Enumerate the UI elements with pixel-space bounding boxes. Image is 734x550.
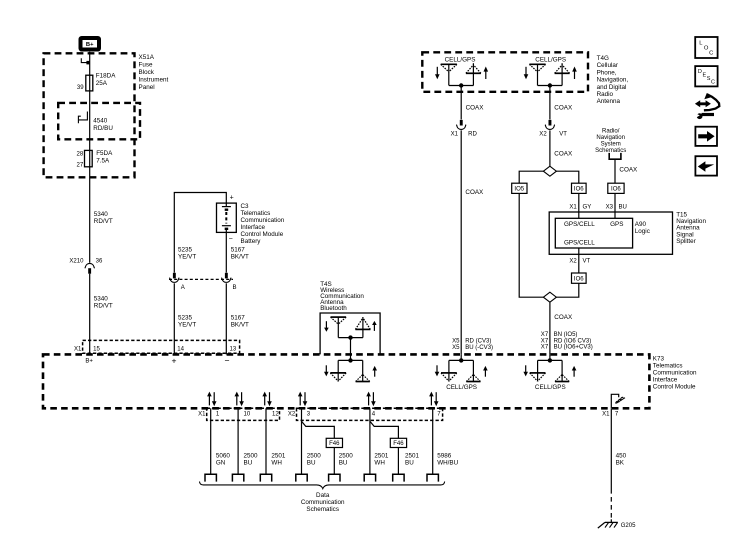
connector F46 second <box>390 438 406 447</box>
svg-text:F46: F46 <box>393 441 404 447</box>
svg-text:C: C <box>709 50 713 56</box>
pin 28 <box>76 151 83 157</box>
svg-text:X210: X210 <box>69 258 84 264</box>
svg-text:BK/VT: BK/VT <box>231 253 249 260</box>
wire label 5235 YE/VT upper <box>178 246 196 260</box>
svg-text:X1: X1 <box>569 204 577 210</box>
svg-text:RD (IO6 CV3): RD (IO6 CV3) <box>554 338 592 344</box>
antenna module T4G dashed box <box>422 52 588 92</box>
svg-text:B+: B+ <box>85 359 93 365</box>
pin X2:4 wire 2501 WH <box>370 408 389 474</box>
fuse block inner dashed box <box>58 103 140 139</box>
T4G left arrows <box>435 67 488 80</box>
pin X2:7 arrows <box>429 392 438 407</box>
K73 internal ground link <box>611 394 625 408</box>
svg-text:Telematics: Telematics <box>241 210 271 217</box>
wire label 5340 RD/VT lower <box>94 295 113 309</box>
svg-text:RD: RD <box>468 132 477 138</box>
wire radio coax <box>615 159 638 183</box>
svg-text:5235: 5235 <box>178 314 193 321</box>
svg-text:2501: 2501 <box>271 453 286 460</box>
label A90 Logic <box>635 221 650 235</box>
wire label 4540 RD/BU <box>93 117 113 132</box>
svg-text:BU: BU <box>619 204 627 210</box>
svg-text:CELL/GPS: CELL/GPS <box>445 56 476 63</box>
svg-text:Cellular: Cellular <box>597 62 618 69</box>
svg-text:Block: Block <box>139 69 155 76</box>
svg-text:B: B <box>233 285 237 291</box>
svg-text:X7: X7 <box>541 338 549 344</box>
wire F46 second 2501 BU <box>398 448 419 475</box>
wire radio IO6 to T15 X3 <box>606 193 627 218</box>
label Data Communication Schematics <box>301 492 345 513</box>
svg-text:Interface: Interface <box>653 376 678 383</box>
wire B+ to K73 X1:15 <box>89 52 91 355</box>
svg-text:IO6: IO6 <box>574 276 584 282</box>
svg-text:IO5: IO5 <box>514 187 524 193</box>
K73 cell transmit antenna X7 <box>555 360 569 381</box>
pin X2:4 arrows <box>366 392 375 407</box>
wire T15 X2 output <box>569 248 590 273</box>
port IO6 output <box>572 273 587 283</box>
wire IO5 to lower diamond <box>519 193 543 297</box>
svg-text:5235: 5235 <box>178 246 193 253</box>
T4G left receive antenna <box>441 64 457 85</box>
svg-text:5340: 5340 <box>94 211 109 218</box>
coax connector X2 VT <box>539 120 567 138</box>
svg-text:4540: 4540 <box>93 117 108 124</box>
T4G right receive antenna <box>529 64 545 85</box>
coax connector X1 RD <box>451 120 478 138</box>
label Radio/Navigation System Schematics <box>595 128 626 154</box>
svg-text:39: 39 <box>77 85 84 91</box>
wire label 5340 RD/VT upper <box>94 211 113 225</box>
svg-text:System: System <box>601 142 621 148</box>
svg-text:Battery: Battery <box>241 238 262 245</box>
label CELL/GPS X7 <box>535 384 566 391</box>
svg-text:Navigation,: Navigation, <box>597 77 629 84</box>
pin X1:1 arrows <box>207 392 216 407</box>
fuse block X51A dashed outline <box>44 53 135 177</box>
svg-text:X51A: X51A <box>139 54 155 61</box>
svg-text:IO6: IO6 <box>574 187 584 193</box>
off-page terminal pin1 <box>205 474 216 481</box>
svg-text:Antenna: Antenna <box>597 98 621 105</box>
label C3 <box>241 203 285 245</box>
coax wire left lower to K73 X5 <box>461 130 484 354</box>
wire B to K73 pin 13 <box>225 283 227 354</box>
svg-text:Instrument: Instrument <box>139 77 169 84</box>
off-page terminal F46 first <box>329 474 340 481</box>
off-page terminal pin10 <box>232 474 243 481</box>
svg-text:CELL/GPS: CELL/GPS <box>535 56 566 63</box>
pin X1 7 ground <box>602 411 619 417</box>
svg-text:GPS: GPS <box>610 221 623 228</box>
svg-text:Data: Data <box>316 492 330 499</box>
port IO6 radio <box>608 183 624 193</box>
label CELL/GPS X5 <box>446 384 477 391</box>
svg-text:CELL/GPS: CELL/GPS <box>535 384 566 391</box>
svg-text:Logic: Logic <box>635 228 650 235</box>
label T4S Wireless Communication Antenna Bluetooth <box>320 281 364 312</box>
control module K73 dashed outline <box>43 354 649 408</box>
svg-text:RD/VT: RD/VT <box>94 218 113 225</box>
svg-text:Communication: Communication <box>241 217 285 224</box>
svg-text:BU: BU <box>244 460 253 467</box>
svg-text:X5: X5 <box>452 345 460 351</box>
svg-text:COAX: COAX <box>554 151 573 158</box>
pin X1:1 wire 5060 GN <box>211 408 231 474</box>
svg-text:5167: 5167 <box>231 314 246 321</box>
pin X1:12 wire 2501 WH <box>266 408 286 474</box>
svg-text:Splitter: Splitter <box>676 238 696 245</box>
svg-text:Communication: Communication <box>653 369 697 376</box>
off-page terminal pin4 <box>364 474 375 481</box>
label T4G Cellular Phone Navigation and Digital Radio Antenna <box>597 55 629 105</box>
toolbar button DESC <box>695 66 717 86</box>
svg-text:12: 12 <box>272 411 279 417</box>
svg-text:G205: G205 <box>621 523 636 529</box>
svg-text:YE/VT: YE/VT <box>178 321 196 328</box>
svg-text:X1: X1 <box>198 411 206 417</box>
inline connector row A B <box>169 278 233 280</box>
off-page terminal F46 second <box>393 474 404 481</box>
svg-text:10: 10 <box>244 411 251 417</box>
T4G right transmit antenna <box>555 63 570 85</box>
T4S signal arrows <box>324 321 377 332</box>
svg-text:−: − <box>229 236 233 243</box>
logic block A90 <box>555 218 632 248</box>
svg-text:Control Module: Control Module <box>241 231 284 238</box>
fuse block internal tap junction <box>81 58 90 64</box>
splice diamond lower <box>543 292 556 302</box>
T4G right junction <box>538 83 563 87</box>
svg-text:2500: 2500 <box>244 453 259 460</box>
connector X1 top row dotted box <box>74 340 240 353</box>
pin X1:10 wire 2500 BU <box>238 408 258 474</box>
svg-text:Schematics: Schematics <box>306 506 339 513</box>
connector X2 bottom dotted box <box>288 408 443 420</box>
svg-text:YE/VT: YE/VT <box>178 253 196 260</box>
svg-text:COAX: COAX <box>554 314 573 321</box>
internal jumper tap 4540 <box>78 112 87 124</box>
fuse F5DA 7.5A <box>85 150 114 167</box>
pin 39 <box>77 85 84 91</box>
svg-text:COAX: COAX <box>465 189 484 196</box>
svg-text:T4G: T4G <box>597 55 609 62</box>
svg-text:X3: X3 <box>606 204 614 210</box>
pin X2:3 arrows <box>298 392 307 407</box>
label CELL/GPS left <box>445 56 476 63</box>
svg-text:WH/BU: WH/BU <box>437 460 458 467</box>
svg-text:Panel: Panel <box>139 84 155 91</box>
off-page terminal pin7 <box>427 474 438 481</box>
svg-text:GPS/CELL: GPS/CELL <box>564 221 595 228</box>
wire F46 first 2500 BU <box>334 448 353 475</box>
T4S antenna junction <box>338 335 363 339</box>
wire label 5235 YE/VT lower <box>178 314 196 328</box>
wire IO6 output to lower diamond <box>556 283 578 297</box>
antenna module T4S box <box>320 313 380 354</box>
label CELL/GPS right <box>535 56 566 63</box>
label X51A Fuse Block Instrument Panel <box>139 54 169 91</box>
svg-text:BU (-CV3): BU (-CV3) <box>465 345 493 351</box>
svg-text:2500: 2500 <box>307 453 322 460</box>
fuse F18DA 25A <box>86 73 116 91</box>
splitter T15 outer box <box>549 212 672 254</box>
svg-text:5986: 5986 <box>437 453 452 460</box>
svg-text:RD/VT: RD/VT <box>94 302 113 309</box>
wire diamond to IO5 <box>519 171 543 183</box>
off-page terminal radio coax <box>609 153 621 159</box>
brace data communication group <box>200 482 445 489</box>
K73 cell antenna X7 junction <box>538 354 563 362</box>
connector pin B <box>221 273 236 291</box>
coax wire X2 to splitter diamond <box>550 130 573 166</box>
svg-text:+: + <box>230 195 234 202</box>
connector F46 first <box>326 438 342 447</box>
svg-text:GY: GY <box>583 204 592 210</box>
pin X2:3 wire 2500 BU <box>302 408 322 474</box>
svg-text:BN (IO5): BN (IO5) <box>554 332 578 338</box>
svg-text:RD/BU: RD/BU <box>93 125 113 132</box>
pin 14 <box>171 347 184 366</box>
svg-text:BK/VT: BK/VT <box>231 321 249 328</box>
pin X2:7 wire 5986 WH/BU <box>433 408 459 474</box>
K73 bluetooth transmit antenna <box>356 360 370 381</box>
pin labels X5 <box>452 338 493 351</box>
wire T4S to K73 <box>350 338 352 361</box>
pin 15 <box>85 347 100 365</box>
svg-text:Control Module: Control Module <box>653 383 696 390</box>
svg-text:COAX: COAX <box>554 104 573 111</box>
off-page terminal pin12 <box>260 474 271 481</box>
pin X1:12 arrows <box>262 392 271 407</box>
svg-text:25A: 25A <box>96 80 108 87</box>
connector pin A <box>169 273 185 291</box>
svg-text:COAX: COAX <box>466 104 485 111</box>
port IO6 input <box>572 183 587 193</box>
svg-text:7.5A: 7.5A <box>96 158 110 165</box>
coax wire right upper <box>550 86 573 120</box>
K73 cell antenna X5 junction <box>449 354 474 362</box>
T4G left junction <box>449 83 474 87</box>
K73 bluetooth receive antenna <box>330 360 346 381</box>
svg-text:450: 450 <box>616 453 627 460</box>
wire battery positive loop <box>174 193 226 273</box>
wire label 5167 BK/VT upper <box>231 246 249 260</box>
battery C3 Telematics Communication Interface Control Module Battery <box>217 203 237 232</box>
label T15 Navigation Antenna Signal Splitter <box>676 212 706 245</box>
splice diamond upper <box>543 166 556 176</box>
svg-text:5060: 5060 <box>216 453 231 460</box>
T4S transmit antenna <box>355 317 370 338</box>
svg-text:A90: A90 <box>635 221 647 228</box>
svg-text:Navigation: Navigation <box>596 135 625 141</box>
svg-text:2500: 2500 <box>339 453 354 460</box>
svg-text:Communication: Communication <box>301 499 345 506</box>
battery positive terminal B+ <box>81 38 100 50</box>
coax wire left upper <box>461 86 484 120</box>
off-page terminal pin3 <box>296 474 307 481</box>
svg-text:Telematics: Telematics <box>653 362 683 369</box>
T4G left transmit antenna <box>466 63 481 85</box>
K73 bluetooth signal arrows <box>324 365 377 376</box>
wire label 5167 BK/VT lower <box>231 314 249 328</box>
K73 cell receive antenna X5 <box>441 360 457 381</box>
pin labels X7 <box>541 332 593 351</box>
svg-text:14: 14 <box>177 347 184 353</box>
svg-text:Phone,: Phone, <box>597 69 617 76</box>
svg-text:CELL/GPS: CELL/GPS <box>446 384 477 391</box>
splice branch to F46 first <box>302 421 335 438</box>
svg-text:D: D <box>698 69 702 75</box>
svg-text:X1: X1 <box>74 347 82 353</box>
svg-text:27: 27 <box>76 163 83 169</box>
pin 27 <box>76 163 83 169</box>
ground wire 450 BK <box>611 408 626 522</box>
svg-text:Bluetooth: Bluetooth <box>320 305 347 312</box>
svg-text:C: C <box>711 80 715 86</box>
wire A to K73 pin 14 <box>173 283 175 354</box>
svg-text:36: 36 <box>96 258 103 264</box>
svg-text:2501: 2501 <box>374 453 389 460</box>
T4S receive antenna <box>331 317 347 338</box>
svg-text:5340: 5340 <box>94 295 109 302</box>
K73 bluetooth antenna junction <box>338 358 363 362</box>
svg-text:13: 13 <box>230 347 237 353</box>
wire battery negative <box>225 232 227 272</box>
T4G right arrows <box>524 67 577 80</box>
svg-text:WH: WH <box>374 460 385 467</box>
svg-text:WH: WH <box>271 460 282 467</box>
svg-text:GN: GN <box>216 460 226 467</box>
port IO5 <box>512 183 527 193</box>
pin X1:10 arrows <box>235 392 244 407</box>
K73 X7 arrows <box>523 365 576 376</box>
svg-text:Fuse: Fuse <box>139 62 153 69</box>
node + at battery top <box>230 195 234 202</box>
connector X1 bottom dotted box <box>198 408 279 420</box>
wire diamond to IO6 left <box>556 171 578 183</box>
svg-text:Interface: Interface <box>241 224 266 231</box>
svg-text:Radio: Radio <box>597 91 614 98</box>
svg-text:X7: X7 <box>541 345 549 351</box>
splice branch to F46 second <box>370 421 399 438</box>
inline connector X210 pin 36 <box>69 258 103 273</box>
svg-text:C3: C3 <box>241 203 250 210</box>
svg-text:X1: X1 <box>451 132 459 138</box>
svg-text:2501: 2501 <box>405 453 420 460</box>
svg-text:X5: X5 <box>452 338 460 344</box>
svg-text:X2: X2 <box>569 259 577 265</box>
svg-text:BU (IO6+CV3): BU (IO6+CV3) <box>554 345 593 351</box>
svg-text:BU: BU <box>339 460 348 467</box>
K73 X5 arrows <box>435 365 488 376</box>
svg-text:28: 28 <box>76 151 83 157</box>
svg-text:B+: B+ <box>86 42 94 48</box>
toolbar button back arrow <box>695 156 717 175</box>
svg-text:Radio/: Radio/ <box>602 128 620 134</box>
svg-text:RD (CV3): RD (CV3) <box>465 338 491 344</box>
svg-text:+: + <box>171 355 176 365</box>
coax wire to K73 X7 <box>550 302 573 354</box>
svg-text:COAX: COAX <box>619 166 638 173</box>
toolbar button LOC <box>695 37 717 58</box>
svg-text:5167: 5167 <box>231 246 246 253</box>
node - at battery bottom <box>229 236 233 243</box>
svg-text:GPS/CELL: GPS/CELL <box>564 240 595 247</box>
svg-text:and Digital: and Digital <box>597 84 627 91</box>
wire IO6 to T15 X1 <box>569 193 591 218</box>
svg-text:BU: BU <box>405 460 414 467</box>
K73 cell receive antenna X7 <box>530 360 546 381</box>
ground G205 <box>598 522 636 529</box>
svg-text:X2: X2 <box>288 411 296 417</box>
svg-text:X2: X2 <box>539 132 547 138</box>
svg-text:IO6: IO6 <box>611 187 621 193</box>
label K73 Telematics Communication Interface Control Module <box>653 355 697 390</box>
svg-text:BU: BU <box>307 460 316 467</box>
K73 cell transmit antenna X5 <box>466 360 480 381</box>
svg-text:BK: BK <box>616 460 625 467</box>
svg-text:K73: K73 <box>653 355 665 362</box>
svg-text:−: − <box>224 355 229 365</box>
svg-text:X1: X1 <box>602 411 610 417</box>
svg-text:F46: F46 <box>329 441 340 447</box>
toolbar button forward arrow <box>695 127 717 146</box>
svg-text:VT: VT <box>559 132 567 138</box>
svg-text:F18DA: F18DA <box>96 73 116 80</box>
toolbar icon route arrows <box>695 93 719 119</box>
svg-text:X7: X7 <box>541 332 549 338</box>
svg-text:15: 15 <box>93 347 100 353</box>
svg-text:VT: VT <box>583 259 591 265</box>
svg-text:F5DA: F5DA <box>96 150 113 157</box>
pin 13 <box>224 347 236 366</box>
